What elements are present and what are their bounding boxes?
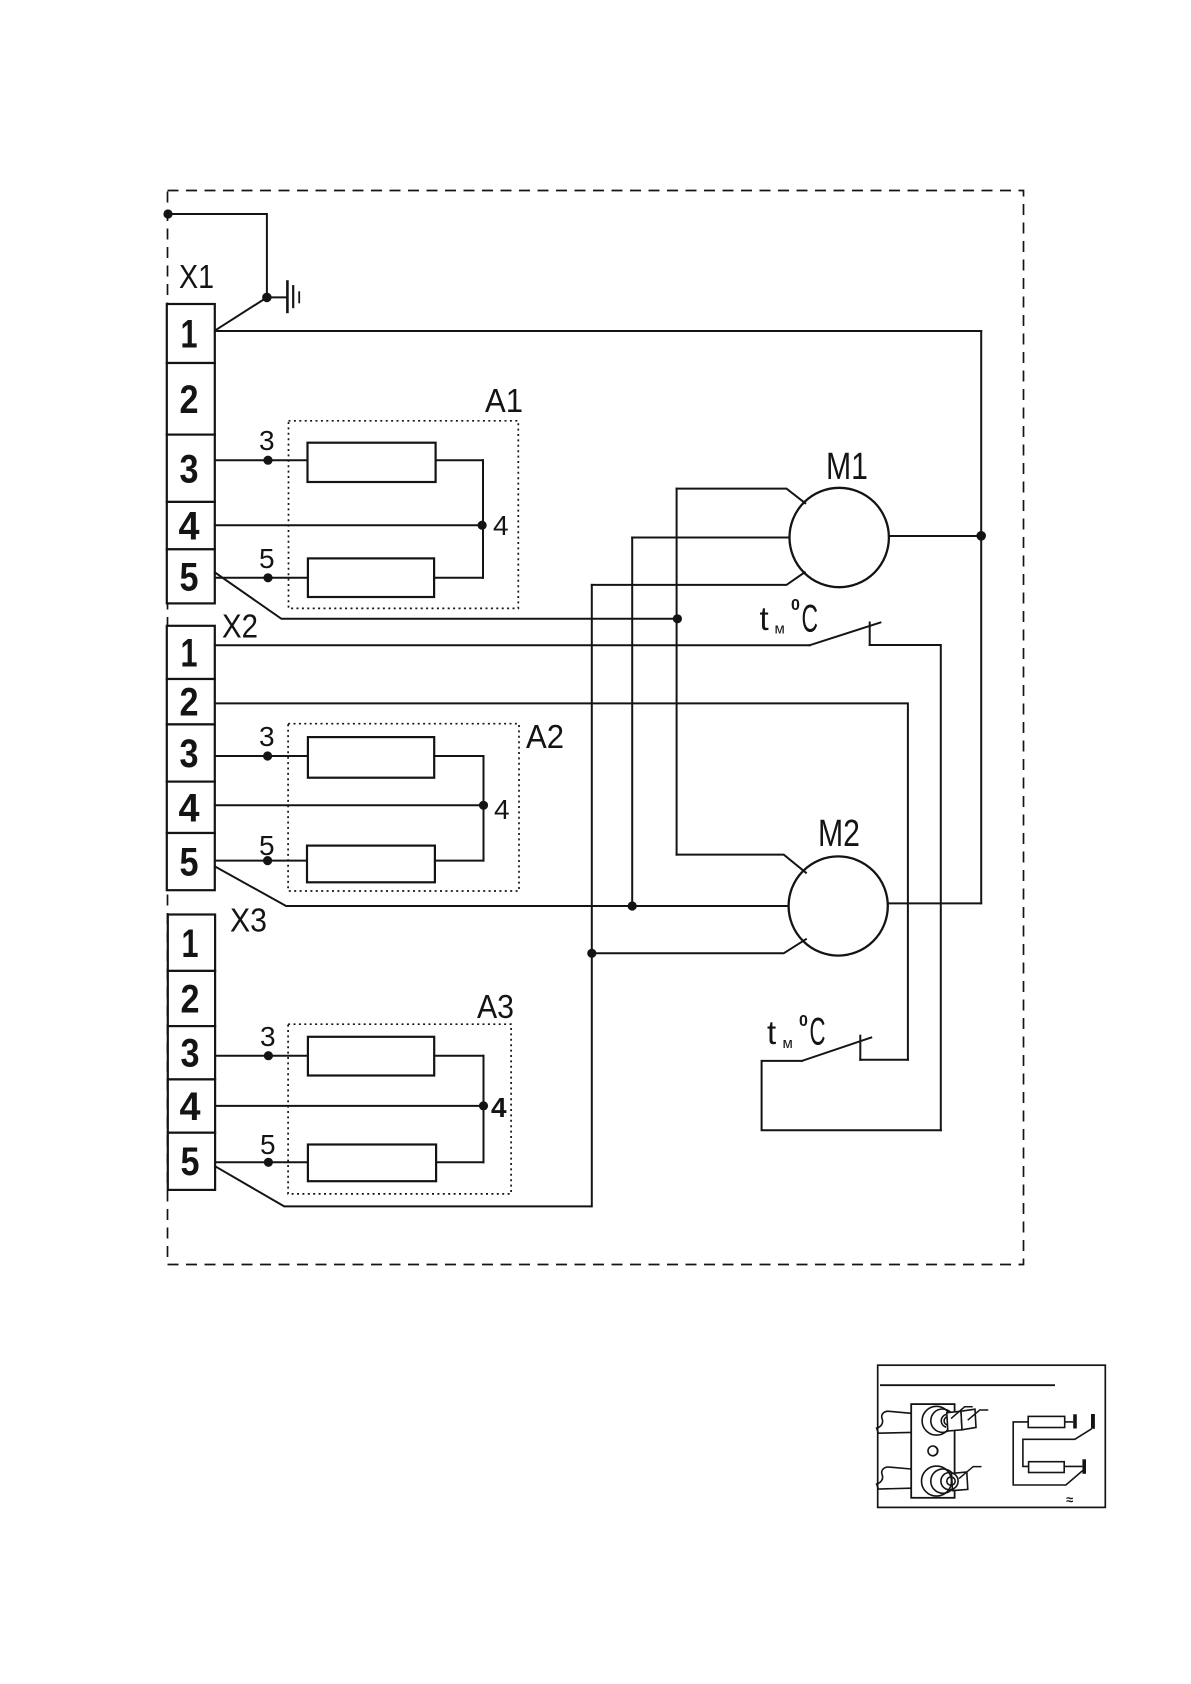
svg-text:5: 5 xyxy=(259,830,275,861)
X2 pin numbers xyxy=(179,632,201,885)
wire: column vertical to M2 bottom and X3 xyxy=(591,585,593,1207)
inset contact bar 2 xyxy=(1091,1414,1095,1429)
wire: M2 to right bus xyxy=(888,902,981,904)
X3 pin numbers xyxy=(180,922,202,1184)
svg-text:X1: X1 xyxy=(179,258,214,295)
svg-text:A2: A2 xyxy=(526,718,564,755)
wire: X3 pin5 to A3 xyxy=(215,1161,308,1163)
inset contact bar 1 xyxy=(1073,1414,1077,1428)
inset wire middle loop xyxy=(1023,1429,1092,1467)
svg-text:3: 3 xyxy=(180,732,199,776)
wire: X2 pin4 to node 4 xyxy=(215,804,484,806)
thermal switch 1 blade xyxy=(810,623,881,646)
wire: X2 pin1 to thermal switch 1 xyxy=(215,644,810,646)
wire: column vertical to M2 top xyxy=(676,489,678,855)
svg-text:C: C xyxy=(802,598,819,641)
wire: A3 lower element to link xyxy=(436,1161,483,1163)
connector X3 body xyxy=(168,915,215,1190)
wire: X3 pin5 diagonal return xyxy=(215,1166,591,1206)
resistor A1 upper element xyxy=(308,443,436,482)
wire: node to ground symbol xyxy=(267,296,287,298)
svg-text:3: 3 xyxy=(180,448,199,492)
wire: X1 pin5 diagonal feed xyxy=(215,573,677,619)
wire: X1 pin3 to A1 xyxy=(215,459,308,461)
wire: M2 bottom winding xyxy=(592,939,806,953)
thermostat upper terminal xyxy=(922,1406,976,1435)
svg-text:≈: ≈ xyxy=(1066,1492,1073,1507)
wire: ground node diagonal to X1 pin1 xyxy=(215,297,267,330)
svg-text:4: 4 xyxy=(491,1092,507,1123)
node on border (supply entry) xyxy=(163,209,172,218)
motor M2 xyxy=(789,856,888,955)
node 4 of A1 xyxy=(478,521,487,530)
thermostat lower leader line xyxy=(959,1467,982,1479)
thermal switch 2 label t °C xyxy=(767,1011,826,1054)
X1 pin numbers xyxy=(179,313,201,600)
motor M1 xyxy=(790,488,889,587)
wire: column vertical to M2 middle xyxy=(631,538,633,907)
svg-text:4: 4 xyxy=(494,794,510,825)
wire: A2 upper element to link xyxy=(434,755,483,757)
svg-text:3: 3 xyxy=(259,425,275,456)
svg-text:3: 3 xyxy=(181,1032,200,1076)
inset resistor lower xyxy=(1029,1462,1065,1473)
wire: A1 lower element to link xyxy=(434,577,483,579)
wire: X1 pin5 to A1 xyxy=(215,577,308,579)
wire: X2 pin5 diagonal to M2 xyxy=(215,867,789,907)
svg-text:2: 2 xyxy=(180,681,199,725)
svg-text:X3: X3 xyxy=(230,902,267,939)
junction: M1 middle column on M2 wire xyxy=(628,901,637,910)
enclosure dashed border xyxy=(168,191,1024,1265)
resistor A2 upper element xyxy=(308,737,434,778)
inset wire left loop xyxy=(1013,1422,1082,1485)
heater block A1 dotted outline xyxy=(289,421,519,609)
wire: A1 upper element to link xyxy=(436,459,483,461)
thermal switch 1 label t °C xyxy=(760,597,819,641)
svg-text:1: 1 xyxy=(182,922,199,966)
detail inset header line xyxy=(880,1384,1055,1386)
inset wire lower right xyxy=(1064,1465,1082,1467)
thermostat mounting hole xyxy=(928,1446,938,1456)
inset wire upper right xyxy=(1065,1421,1074,1423)
wire: X1 pin1 to right bus xyxy=(215,330,981,332)
wire: A2 lower element to link xyxy=(435,860,484,862)
wire: X2 pin3 to A2 xyxy=(215,755,308,757)
svg-text:4: 4 xyxy=(180,1085,202,1129)
thermostat upper leader lines xyxy=(951,1407,988,1420)
wire: thermal switch 2 feed loop xyxy=(762,1061,941,1130)
detail inset frame xyxy=(878,1365,1106,1507)
wire: M1 middle winding xyxy=(632,537,789,539)
junction on X3 pin5 wire xyxy=(264,1158,273,1167)
wire: thermal switch 1 output xyxy=(870,645,941,1130)
wire: M1 bottom winding xyxy=(592,572,805,585)
wire: M2 top winding xyxy=(677,855,806,873)
svg-text:M2: M2 xyxy=(818,813,860,855)
svg-text:4: 4 xyxy=(179,505,201,549)
inset contact bar 3 xyxy=(1082,1459,1086,1474)
thermal switch 2 contact xyxy=(859,1036,861,1060)
svg-text:2: 2 xyxy=(180,378,199,422)
wire: M1 to right bus xyxy=(889,535,981,537)
connector X2 body xyxy=(167,626,215,890)
svg-text:5: 5 xyxy=(180,556,199,600)
svg-text:0: 0 xyxy=(791,597,800,614)
junction on X1 pin3 wire xyxy=(263,456,272,465)
svg-text:M1: M1 xyxy=(826,446,868,488)
svg-text:5: 5 xyxy=(181,1140,200,1184)
resistor A1 lower element xyxy=(308,558,434,597)
wire: X1 pin4 to node 4 xyxy=(215,524,482,526)
svg-text:5: 5 xyxy=(260,1129,276,1160)
junction on X3 pin3 wire xyxy=(264,1051,273,1060)
thermostat lower terminal xyxy=(922,1466,968,1496)
inset resistor upper xyxy=(1028,1416,1065,1427)
svg-text:5: 5 xyxy=(180,841,199,885)
wire: A3 right link vertical xyxy=(483,1056,485,1163)
ground symbol xyxy=(287,280,299,313)
svg-text:1: 1 xyxy=(181,632,198,676)
svg-text:C: C xyxy=(810,1011,826,1054)
thermal switch 2 blade xyxy=(802,1038,871,1061)
heater block A2 dotted outline xyxy=(288,724,519,891)
junction: ground node xyxy=(262,293,272,303)
svg-text:t: t xyxy=(760,600,769,637)
node 4 of A2 xyxy=(479,801,488,810)
node 4 of A3 xyxy=(479,1101,488,1110)
svg-text:A1: A1 xyxy=(485,382,523,419)
svg-text:0: 0 xyxy=(799,1013,808,1030)
thermostat upper lead xyxy=(877,1411,912,1433)
junction: M2 bottom on left column xyxy=(587,949,596,958)
junction: X1 pin5 feed to M column xyxy=(673,614,682,623)
svg-text:5: 5 xyxy=(259,543,275,574)
wire: A3 upper element to link xyxy=(434,1055,483,1057)
svg-text:A3: A3 xyxy=(477,988,514,1025)
wire: X2 pin2 to thermal switch 2 xyxy=(215,703,908,1059)
wire: M1 top winding xyxy=(677,489,806,504)
wire: border node to ground drop xyxy=(168,214,267,297)
resistor A3 lower element xyxy=(308,1145,436,1182)
junction: M1 on right bus xyxy=(976,531,986,541)
connector X1 body xyxy=(167,304,215,603)
heater block A3 dotted outline xyxy=(288,1024,511,1194)
svg-text:4: 4 xyxy=(493,510,509,541)
wire: thermal switch 2 output xyxy=(860,1059,908,1061)
svg-text:3: 3 xyxy=(260,1021,276,1052)
thermal switch 1 contact xyxy=(869,623,871,646)
thermostat lower lead xyxy=(877,1467,912,1489)
wire: A2 right link vertical xyxy=(483,756,485,861)
junction on X1 pin5 wire xyxy=(263,573,272,582)
wire: X3 pin3 to A3 xyxy=(215,1055,308,1057)
junction on X2 pin5 wire xyxy=(263,856,272,865)
svg-text:4: 4 xyxy=(179,787,201,831)
thermostat body plate xyxy=(911,1404,954,1498)
wire: X2 pin5 to A2 xyxy=(215,860,307,862)
resistor A3 upper element xyxy=(308,1037,434,1076)
svg-text:1: 1 xyxy=(181,313,198,357)
svg-text:м: м xyxy=(783,1035,793,1052)
wire: A1 right link vertical xyxy=(482,460,484,578)
svg-text:м: м xyxy=(775,621,785,638)
resistor A2 lower element xyxy=(307,846,435,883)
svg-text:3: 3 xyxy=(259,721,275,752)
wire: right bus vertical xyxy=(980,331,982,903)
wire: X3 pin4 to node 4 xyxy=(215,1105,484,1107)
svg-text:X2: X2 xyxy=(222,608,258,645)
svg-text:t: t xyxy=(767,1014,776,1051)
svg-text:2: 2 xyxy=(181,978,200,1022)
junction on X2 pin3 wire xyxy=(263,751,272,760)
